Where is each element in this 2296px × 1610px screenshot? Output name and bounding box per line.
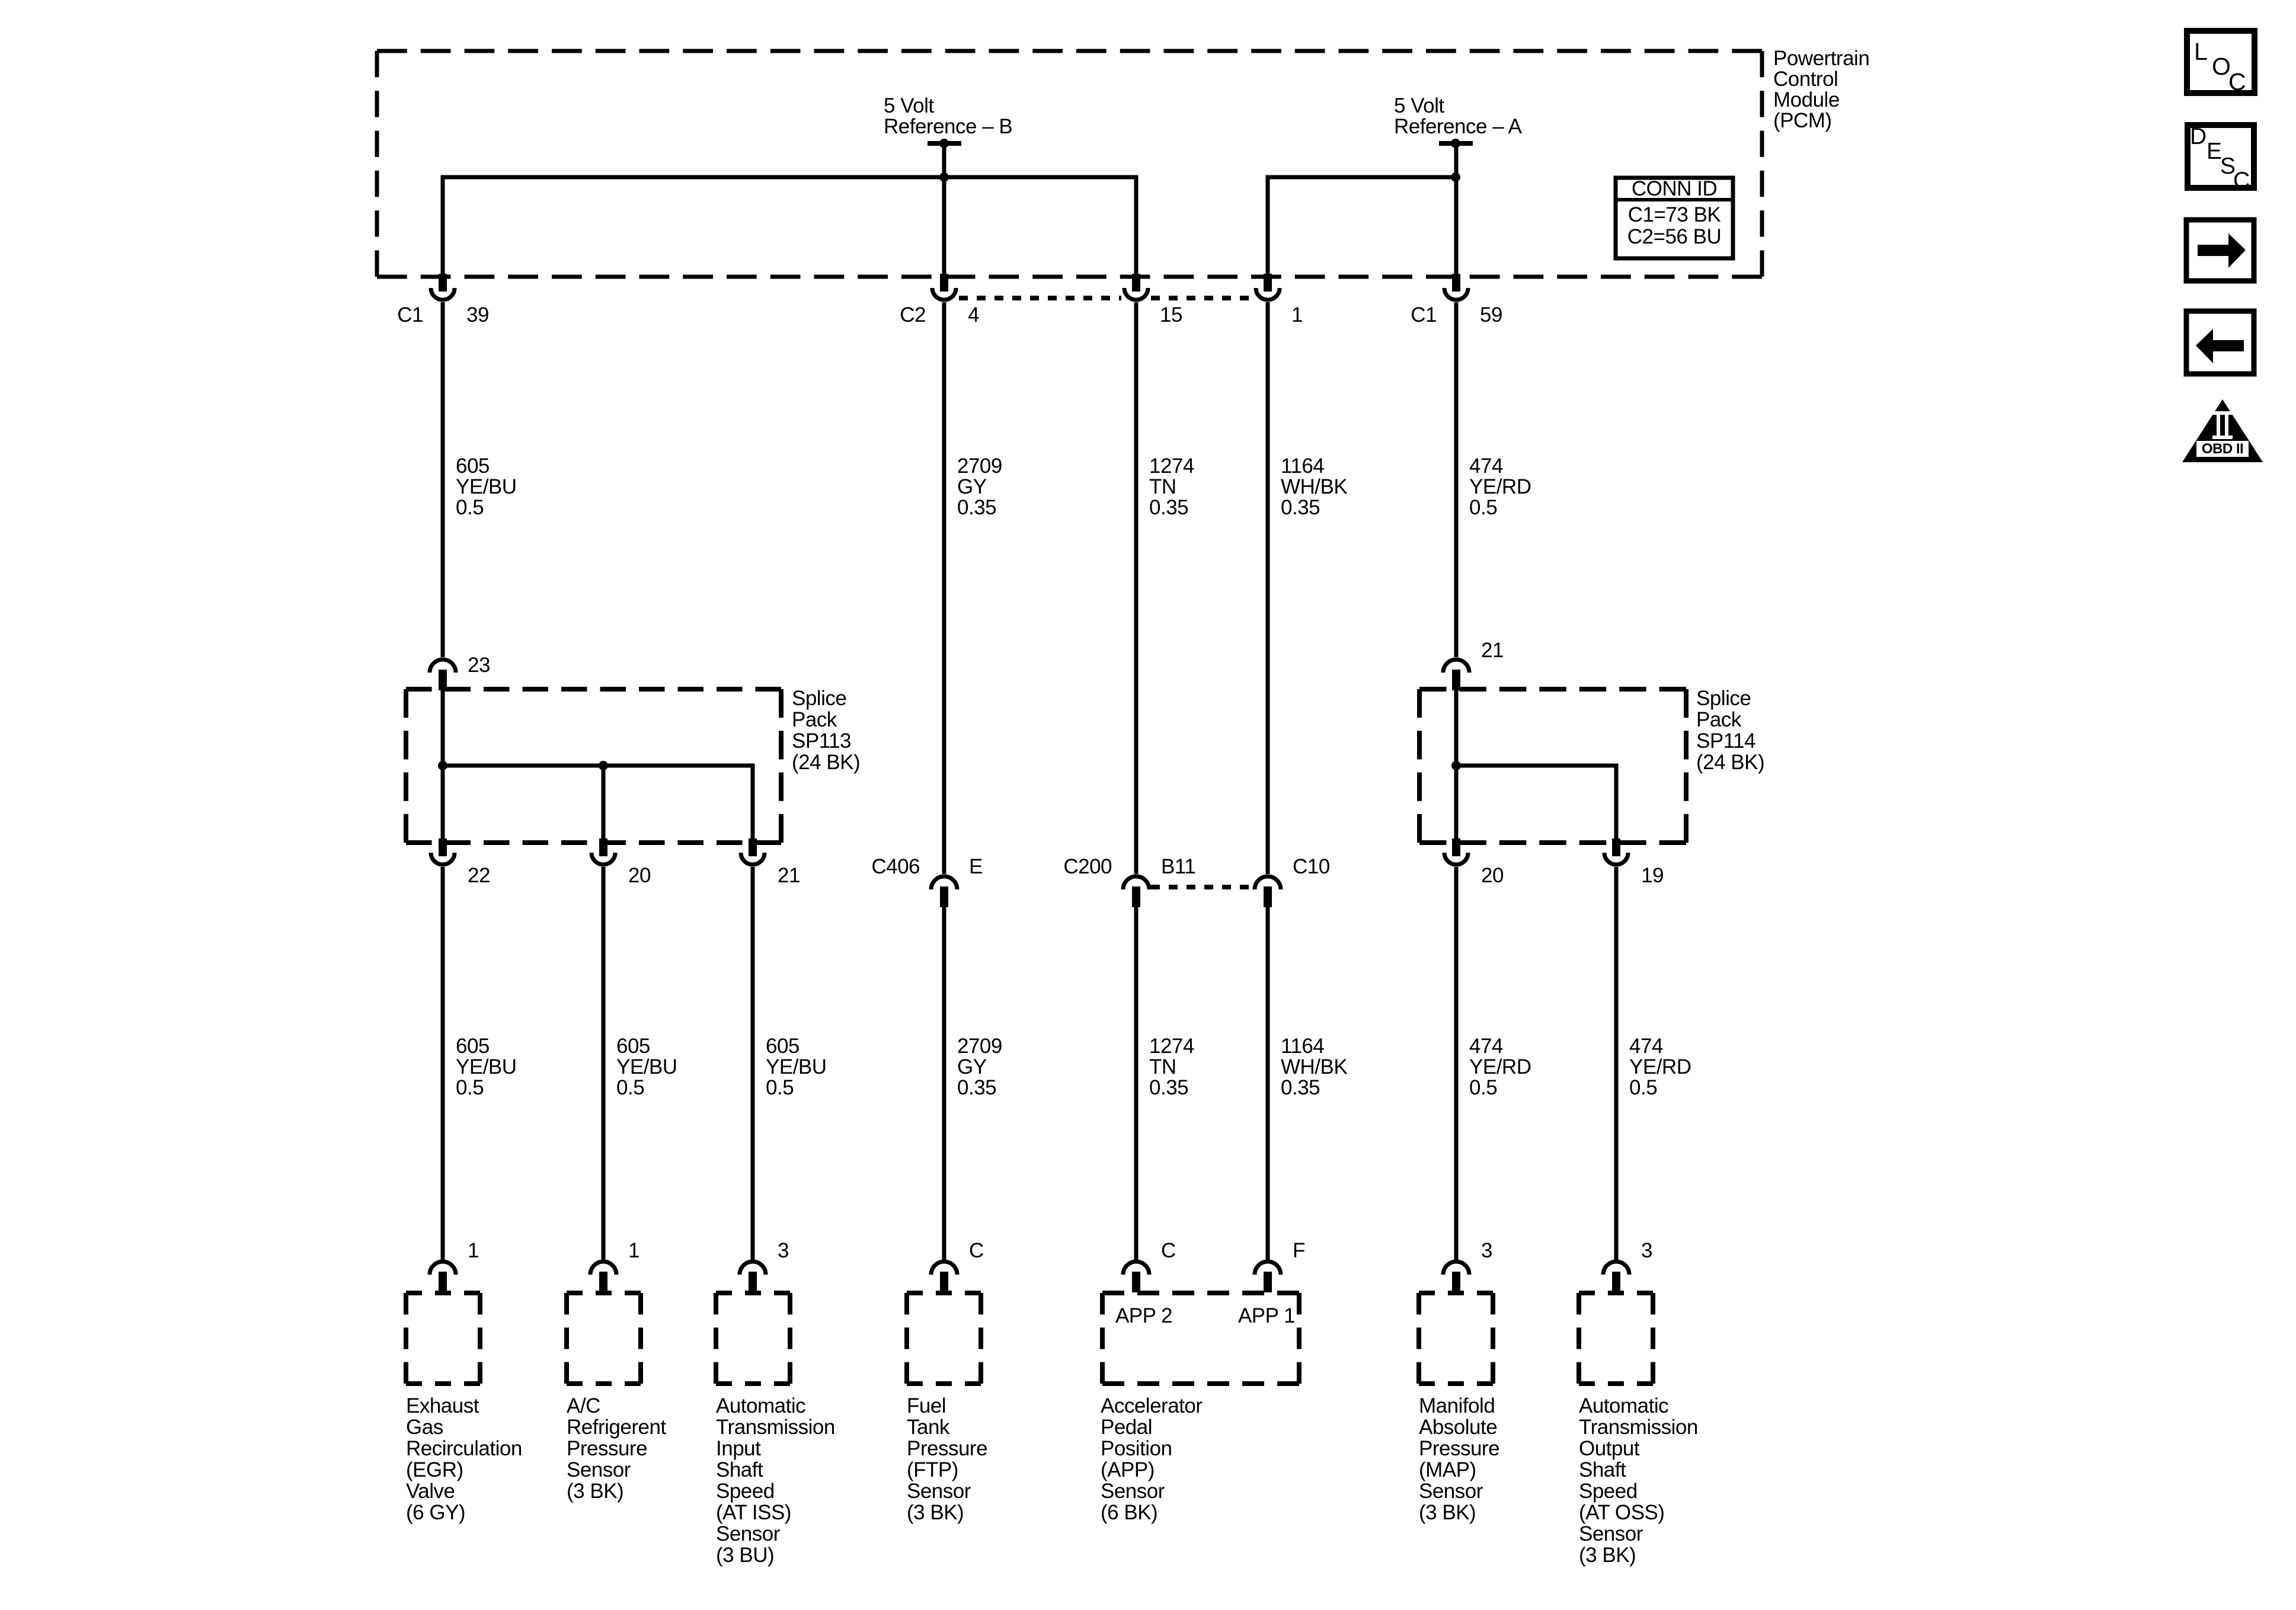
svg-text:C1: C1 <box>1411 303 1437 327</box>
svg-text:15: 15 <box>1160 303 1182 327</box>
svg-text:3: 3 <box>778 1239 789 1262</box>
svg-text:E: E <box>969 855 983 878</box>
svg-text:3: 3 <box>1481 1239 1492 1262</box>
svg-text:39: 39 <box>466 303 489 327</box>
svg-text:APP 2: APP 2 <box>1115 1304 1172 1327</box>
svg-text:23: 23 <box>468 654 490 677</box>
svg-text:20: 20 <box>628 864 651 887</box>
svg-text:3: 3 <box>1641 1239 1652 1262</box>
svg-text:F: F <box>1293 1239 1305 1262</box>
svg-text:CONN ID: CONN ID <box>1632 177 1717 200</box>
svg-text:C2=56 BU: C2=56 BU <box>1627 225 1721 248</box>
svg-text:L: L <box>2194 38 2207 65</box>
svg-text:C1=73 BK: C1=73 BK <box>1628 203 1721 226</box>
svg-text:C406: C406 <box>871 855 920 878</box>
svg-text:1: 1 <box>1291 303 1303 327</box>
svg-text:B11: B11 <box>1161 855 1195 878</box>
svg-text:1: 1 <box>468 1239 479 1262</box>
svg-text:21: 21 <box>1481 639 1504 662</box>
svg-text:20: 20 <box>1481 864 1504 887</box>
svg-text:C: C <box>1161 1239 1176 1262</box>
svg-text:E: E <box>2207 139 2222 164</box>
svg-text:APP 1: APP 1 <box>1238 1304 1295 1327</box>
svg-text:C: C <box>2228 68 2246 95</box>
svg-text:C1: C1 <box>397 303 423 327</box>
svg-text:59: 59 <box>1480 303 1502 327</box>
svg-text:O: O <box>2212 53 2230 80</box>
svg-text:1: 1 <box>628 1239 639 1262</box>
svg-text:C10: C10 <box>1293 855 1330 878</box>
svg-text:D: D <box>2190 124 2207 149</box>
svg-text:C: C <box>2233 168 2250 193</box>
svg-text:21: 21 <box>778 864 800 887</box>
svg-text:4: 4 <box>968 303 979 327</box>
svg-text:C200: C200 <box>1063 855 1112 878</box>
svg-text:OBD II: OBD II <box>2202 441 2243 457</box>
svg-text:C: C <box>969 1239 984 1262</box>
svg-text:C2: C2 <box>900 303 926 327</box>
svg-text:22: 22 <box>468 864 490 887</box>
svg-text:19: 19 <box>1641 864 1664 887</box>
